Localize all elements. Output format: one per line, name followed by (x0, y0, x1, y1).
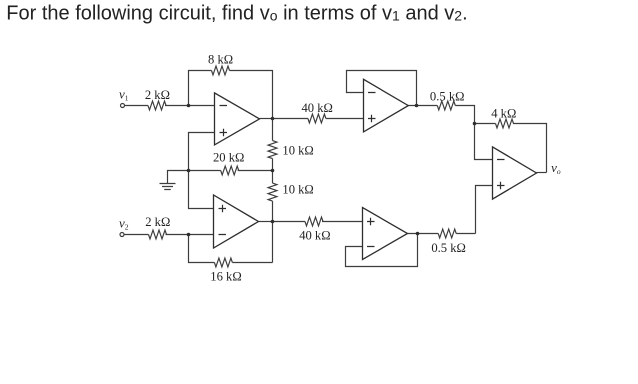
svg-text:vo: vo (551, 160, 561, 176)
svg-text:8 kΩ: 8 kΩ (208, 53, 233, 67)
resistor 10k upper (vertical) (268, 141, 277, 159)
wire 40k bottom to op-amp U4 noninverting input (322, 221, 363, 223)
wire op-amp U4 output to 0.5k bottom (408, 233, 439, 235)
node A2 (187, 233, 191, 237)
op-amp U5 (493, 147, 537, 199)
op-amp U4 (363, 208, 408, 260)
node M (271, 169, 275, 173)
svg-text:For the following circuit, fin: For the following circuit, find vo in te… (6, 2, 467, 24)
wire op-amp U5 output (537, 172, 547, 174)
node A1 (187, 104, 191, 108)
op-amp U1 (215, 93, 260, 145)
svg-text:2 kΩ: 2 kΩ (145, 88, 170, 102)
resistor 2k bottom (149, 230, 167, 239)
wire 10k lower down to node O2 and 16k rail (272, 201, 274, 262)
svg-text:16 kΩ: 16 kΩ (210, 270, 241, 284)
resistor 8k (212, 66, 230, 75)
svg-text:v1: v1 (119, 87, 129, 103)
wire op-amp U5 noninverting input down to 0.5k bottom (476, 186, 493, 234)
wire v2 to R 2k bottom (124, 234, 148, 236)
resistor 40k top (308, 114, 326, 123)
resistor 4k (496, 119, 514, 128)
op-amp U3 (364, 79, 409, 132)
node G (187, 169, 191, 173)
wire 20k to node M (238, 170, 273, 172)
svg-text:0.5 kΩ: 0.5 kΩ (430, 89, 465, 103)
svg-text:2 kΩ: 2 kΩ (145, 215, 170, 229)
wire ground stub (168, 171, 189, 184)
resistor 2k top (148, 101, 166, 110)
resistor 20k (221, 166, 239, 175)
wire feedback: node A1 up, top rail to 8k (189, 71, 212, 106)
wire 0.5k top to node B (455, 106, 474, 124)
wire op-amp U3 output to 0.5k (408, 105, 437, 107)
resistor 0.5k top (437, 101, 455, 110)
resistor 40k bottom (305, 217, 323, 226)
wire node B down to op-amp U5 inverting input (475, 124, 493, 160)
wire v1 to R 2k (125, 105, 149, 107)
wire 4k feedback to op-amp U5 output (513, 124, 547, 173)
ground (160, 184, 176, 190)
resistor 0.5k bottom (438, 229, 456, 238)
wire 16k feedback: node A2 down and right (189, 235, 215, 263)
wire node B to 4k (475, 123, 496, 125)
terminal v1 (121, 104, 125, 108)
svg-text:10 kΩ: 10 kΩ (282, 144, 313, 158)
wire node O1 to 40k top (273, 118, 308, 120)
svg-text:40 kΩ: 40 kΩ (301, 101, 332, 115)
node B (473, 122, 477, 126)
wire op-amp U2 output (259, 221, 273, 223)
svg-text:4 kΩ: 4 kΩ (491, 106, 516, 120)
node O1 (271, 117, 275, 121)
node O3 (415, 104, 419, 108)
terminal v2 (120, 233, 124, 237)
svg-text:40 kΩ: 40 kΩ (299, 228, 330, 242)
wire 0.5k bottom to op-amp U5 noninverting column (456, 233, 475, 235)
node O4 (416, 232, 420, 236)
wire 16k to column under node O2 (232, 262, 272, 264)
wire ground node to 20k (189, 170, 221, 172)
resistor 16k (214, 258, 232, 267)
wire op-amp U1 output (260, 118, 273, 120)
svg-text:v2: v2 (119, 215, 129, 231)
node O2 (271, 220, 275, 224)
svg-text:0.5 kΩ: 0.5 kΩ (431, 241, 466, 255)
resistor 10k lower (vertical) (268, 183, 277, 201)
wire node O2 to 40k bottom (273, 221, 306, 223)
svg-text:20 kΩ: 20 kΩ (213, 150, 244, 164)
wire between 10k resistors (272, 159, 274, 184)
svg-text:10 kΩ: 10 kΩ (282, 182, 313, 196)
wire op-amp U4 feedback loop (346, 234, 418, 267)
op-amp U2 (214, 195, 259, 248)
wire op-amp U1 noninverting input down to ground node and op-amp U2 noninverting input (189, 133, 215, 209)
wire 8k right, down column to 10k (230, 71, 273, 141)
wire R2k to op-amp U1 inverting input, node A1 (165, 105, 215, 107)
wire op-amp U3 feedback loop (347, 71, 417, 106)
wire R2k to op-amp U2 inverting input, node A2 (166, 234, 214, 236)
wire 40k top to op-amp U3 noninverting input (326, 118, 364, 120)
